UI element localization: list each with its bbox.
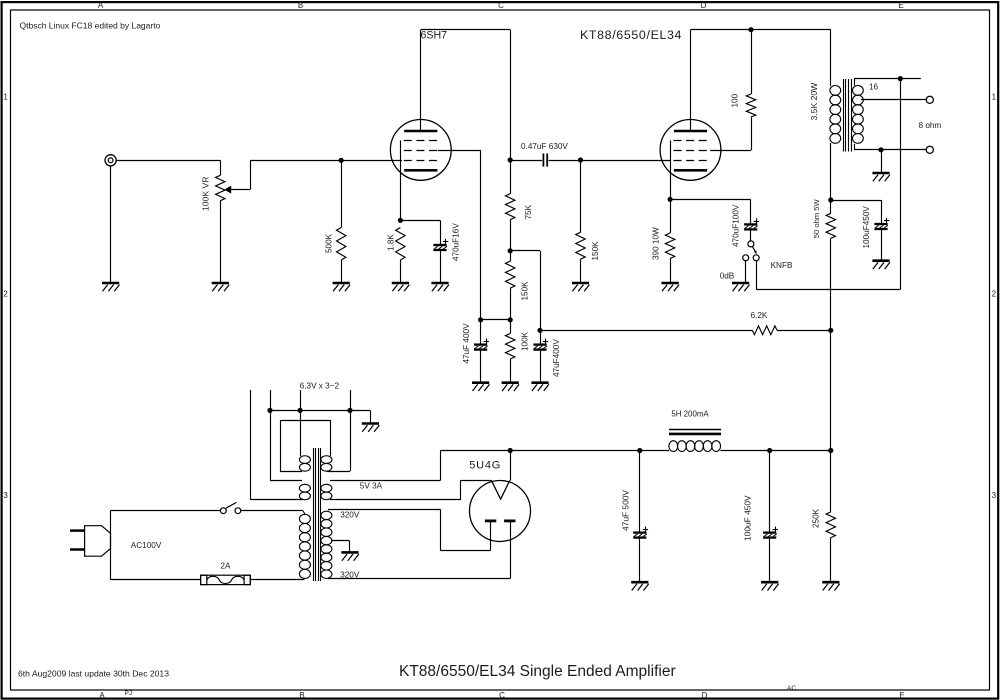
node plate rail / screen resistor [748,27,753,32]
svg-text:1.8K: 1.8K [387,234,396,251]
svg-text:AC: AC [787,685,796,692]
ground 100K [502,381,519,384]
wire 16 ohm tap [854,79,856,86]
svg-text:E: E [899,691,904,700]
transformer output primary lead top [830,30,832,86]
svg-text:2: 2 [992,290,997,299]
wire 0dB throw to ground [745,261,747,283]
ground 47uF 500V [631,581,648,584]
wire winding B bottom lead [327,471,350,473]
svg-text:47uF 400V: 47uF 400V [462,323,471,364]
potentiometer 100K VR [216,175,225,200]
transformer power core [313,448,315,581]
node B+ takeoff [508,448,513,453]
svg-text:6th Aug2009 last update 30th D: 6th Aug2009 last update 30th Dec 2013 [18,668,169,678]
svg-text:150K: 150K [591,241,600,261]
resistor 150K divider [510,251,512,261]
transformer power 6.3V winding B [321,456,332,464]
ground 250K [822,581,839,584]
svg-text:3: 3 [3,491,8,500]
heater stub 3 [300,390,302,410]
wire cathode to bypass cap [400,220,440,222]
ground 100uF450V upper [872,259,889,262]
ground 1.8K [392,282,409,285]
wire mains loop left [110,511,112,580]
ground 470uF16V [431,282,448,285]
wire pot bottom to ground [220,201,222,283]
wire 5V winding top to filament [330,480,440,482]
wire grid leak to ground [580,259,582,283]
node 6.2K / B+ junction [828,328,833,333]
capacitor 47uF400V second [540,330,542,344]
ground heater rail [362,422,379,425]
svg-text:A: A [99,691,105,700]
capacitor 47uF 400V [474,343,487,345]
node B+ riser bottom [828,448,833,453]
svg-text:5U4G: 5U4G [469,460,501,472]
resistor 100K [510,320,512,334]
wire 100K to ground [510,359,512,383]
svg-text:100uF450V: 100uF450V [862,206,871,249]
wire B+ riser [830,330,832,450]
tube KT88 V2 [660,119,721,180]
ground 100uF 450V lower [761,581,778,584]
svg-text:C: C [498,1,504,10]
resistor 250K bleeder [830,451,832,512]
node 6SH7 plate node [508,157,513,162]
terminal 8 ohm top [926,96,933,103]
svg-text:6.3V x 3~2: 6.3V x 3~2 [300,382,340,391]
capacitor 470uF16V [433,244,446,246]
wire 100uF450V to ground [881,229,883,261]
svg-text:A: A [98,1,104,10]
tube 6SH7 V1 [390,119,451,180]
svg-text:C: C [499,691,505,700]
wire mains top rail to switch [111,510,221,512]
switch NFB common [748,241,754,247]
heater stub 2 [270,390,272,410]
transformer power 6.3V winding C [299,484,310,492]
svg-text:0dB: 0dB [720,271,735,280]
wire node C to 6.2K [540,330,752,332]
wire 500K top [341,160,343,227]
svg-text:KT88/6550/EL34 Single Ended Am: KT88/6550/EL34 Single Ended Amplifier [399,663,676,680]
svg-text:5V 3A: 5V 3A [360,482,383,491]
wire OT primary bottom to junction [830,143,832,200]
wire choke to 100uF450V node [720,450,769,452]
heater stub 4 [350,390,352,410]
node A divider [510,220,512,251]
wire HT top to left plate [328,509,440,511]
svg-text:B: B [299,691,304,700]
svg-text:100K: 100K [521,331,530,351]
ground 0dB [732,282,749,285]
wire jack to pot top [116,160,220,162]
wire winding C bottom lead [251,499,303,501]
wire 6SH7 screen tap [438,150,481,152]
wire 1.8K to ground [400,260,402,283]
node 100uF450V junction [767,448,772,453]
svg-text:16: 16 [869,82,879,91]
heater rail [270,410,370,412]
svg-text:6.2K: 6.2K [751,311,768,320]
svg-text:50 ohm 5W: 50 ohm 5W [812,199,821,239]
wire winding A top lead [300,410,302,456]
svg-text:500K: 500K [325,233,334,253]
wire 6SH7 internal g3-cathode [400,140,402,220]
svg-text:100uF 450V: 100uF 450V [743,495,753,541]
wire 6SH7 plate to top rail [420,30,422,131]
svg-text:250K: 250K [812,508,821,528]
ground input jack [102,282,119,285]
wire KT88 plate to top rail [690,30,692,131]
svg-text:320V: 320V [340,511,360,520]
svg-text:D: D [701,1,707,10]
transformer output secondary winding [853,86,864,96]
svg-text:PJ: PJ [125,690,133,697]
node coupling output [578,157,583,162]
ground 47uF 400V [472,381,489,384]
wire pot wiper to grid line [231,189,250,191]
wire jack to ground [110,166,112,283]
wire KNFB throw to 16 ohm tap [756,261,758,290]
svg-text:2: 2 [3,290,8,299]
node 47uF500V junction [637,448,642,453]
transformer output core [843,79,845,152]
switch NFB throw 0dB [743,255,749,261]
wire winding C top lead [270,410,272,480]
svg-text:AC100V: AC100V [131,541,162,550]
ground pot [212,282,229,285]
node 50ohm / 100uF450V junction [828,197,833,202]
transformer power 5V winding [321,484,332,492]
node grid/500K junction [339,158,344,163]
ground 390 10W [662,282,679,285]
svg-text:1: 1 [992,93,997,102]
transformer power 6.3V winding A [299,456,310,464]
wire mains bottom to fuse [111,579,201,581]
node secondary ground tap [878,147,883,152]
wire 250K to ground [830,538,832,583]
wire 5V winding bottom to filament [330,499,461,501]
svg-text:8 ohm: 8 ohm [919,121,942,130]
node B screen node [510,288,512,320]
svg-text:2A: 2A [220,561,231,570]
svg-text:390 10W: 390 10W [652,227,661,260]
wire 500K bottom [341,260,343,283]
svg-text:470uF16V: 470uF16V [452,223,461,261]
wire node A to node C [510,250,540,252]
wire HT center tap [331,540,349,542]
switch mains [220,508,226,514]
resistor 1.8K [396,228,405,261]
node 16 ohm tap [898,76,903,81]
wire secondary bottom tap [854,144,856,150]
svg-text:100: 100 [731,93,740,107]
wire cap2 to ground [540,350,542,383]
svg-text:6SH7: 6SH7 [421,30,448,42]
transformer output primary winding 3.5K 20W [830,86,841,96]
resistor 500K [337,228,346,261]
wire cathode to 470uF100V [670,199,751,201]
wire 100 to screen grid [751,117,753,150]
wire 100uF450V lower to ground [769,538,771,583]
ground 150K grid leak [572,282,589,285]
wire KT88 internal g3-cathode [670,140,672,199]
svg-text:150K: 150K [521,281,530,301]
wire 47uF500V to ground [639,538,641,583]
resistor 50 ohm 5W [830,200,832,213]
svg-text:KT88/6550/EL34: KT88/6550/EL34 [580,28,682,42]
plug AC mains [85,526,111,557]
resistor 150K grid leak [580,160,582,232]
wire 390 to ground [670,259,672,284]
svg-text:47uF 500V: 47uF 500V [621,490,631,531]
choke 5H 200mA [669,429,721,431]
svg-text:3: 3 [992,491,997,500]
fuse 2A [201,575,251,584]
svg-text:D: D [702,691,708,700]
resistor 390 10W [670,199,672,233]
wire screen node to 6SH7 screen column [481,319,511,321]
node KT88 cathode junction [668,197,673,202]
wire HT bottom to right plate [328,578,510,580]
wire secondary to ground [881,150,883,173]
capacitor 0.47uF 630V [510,160,542,162]
switch NFB throw KNFB [753,255,759,261]
input jack J1 [105,155,116,166]
wire junction to 100uF450V [831,200,881,202]
svg-text:3.5K 20W: 3.5K 20W [809,82,819,121]
capacitor 470uF100V [744,223,757,225]
svg-text:47uF400V: 47uF400V [552,339,561,377]
wire 50ohm to 6.2K node [830,238,832,330]
svg-text:E: E [898,1,903,10]
wire switch to primary [241,510,303,512]
wire fuse to primary [250,579,303,581]
svg-text:5H 200mA: 5H 200mA [671,409,709,418]
capacitor 100uF 450V lower [769,451,771,533]
svg-text:1: 1 [3,93,8,102]
ground HT center tap [341,551,358,554]
ground 500K [333,282,350,285]
capacitor 47uF 500V [639,451,641,533]
transformer power HT winding 320-0-320 [321,511,332,519]
wire 6.2K to B+ column [777,330,831,332]
switch NFB lever [753,247,757,253]
ground secondary [872,172,889,175]
wire 47uF400V to ground [480,350,482,383]
svg-text:Qtbsch Linux FC18 edited by La: Qtbsch Linux FC18 edited by Lagarto [20,21,161,31]
svg-text:KNFB: KNFB [771,261,793,270]
node C supply node [537,328,542,333]
wire cap to switch [750,229,752,240]
svg-text:100K VR: 100K VR [201,177,211,211]
resistor 75K [510,160,512,194]
wire screen bypass cap [480,320,482,345]
node 6SH7 cathode junction [398,218,403,223]
wire 8 ohm tap [861,99,926,101]
wire heater rail to ground [370,410,372,423]
wire winding A bottom to winding B top [280,471,302,473]
svg-text:320V: 320V [340,571,360,580]
svg-text:B: B [298,1,303,10]
terminal 8 ohm bottom [926,146,933,153]
wire B+ rail [510,450,640,452]
ground 47uF400V second [531,381,548,384]
heater stub 1 [250,390,252,500]
svg-text:470uF100V: 470uF100V [732,204,741,247]
resistor 100 screen [751,30,753,94]
tube 5U4G rectifier [470,481,531,542]
wire cap to ground [440,250,442,283]
capacitor 100uF450V upper [874,223,887,225]
svg-text:75K: 75K [524,204,533,219]
transformer power primary winding [299,514,310,523]
resistor 6.2K [752,326,777,335]
svg-text:0.47uF 630V: 0.47uF 630V [521,142,568,151]
